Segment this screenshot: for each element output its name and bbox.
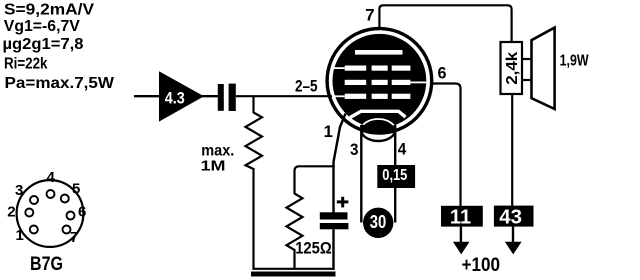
wire bottom rail (252, 268, 334, 270)
wire cathode pin 1 (334, 114, 346, 168)
grid g1 row (334, 94, 411, 99)
grid g2 row (345, 80, 433, 85)
svg-text:6: 6 (78, 204, 86, 221)
svg-text:1: 1 (324, 122, 333, 141)
svg-text:µg2g1=7,8: µg2g1=7,8 (3, 36, 84, 53)
wire C2 to bottom rail (332, 229, 334, 270)
coupling capacitor C1 (218, 84, 236, 111)
heater voltage circle 30 (363, 208, 393, 238)
svg-text:+100: +100 (462, 255, 501, 276)
svg-text:11: 11 (450, 207, 471, 229)
output transformer load 2,4k (501, 42, 523, 94)
svg-text:1,9W: 1,9W (560, 53, 590, 70)
svg-text:1M: 1M (201, 158, 226, 175)
B7G pin 6 hole (67, 212, 75, 220)
heater (361, 119, 395, 141)
wire anode pin 7 to load (379, 5, 511, 42)
cathode electrode (350, 111, 406, 117)
wire triangle to capacitor (202, 95, 219, 97)
svg-text:7: 7 (365, 6, 375, 25)
B7G base outline (17, 180, 84, 247)
heater current box 0,15 (377, 165, 415, 188)
svg-text:30: 30 (370, 212, 387, 232)
input source triangle 4.3 (159, 71, 204, 121)
wire cathode to capacitor C2 (332, 165, 334, 213)
svg-text:4.3: 4.3 (165, 89, 185, 108)
wire load to supply (511, 94, 513, 206)
svg-text:7: 7 (70, 229, 78, 246)
wire screen grid pin 6 (433, 84, 461, 207)
wire input left (134, 95, 160, 97)
label max. 1M (201, 142, 235, 174)
cathode bypass capacitor C2 (320, 212, 349, 229)
svg-text:0,15: 0,15 (382, 167, 407, 184)
tube V1 envelope (327, 29, 432, 134)
svg-text:2: 2 (7, 204, 15, 221)
svg-text:S=9,2mA/V: S=9,2mA/V (4, 1, 94, 18)
grid g3 row (333, 66, 411, 71)
anode current box 43 (494, 206, 534, 229)
tube V1 electrode disc (333, 34, 427, 128)
wire box 11 to arrow (460, 227, 462, 243)
wire heater pin 3 (360, 125, 362, 223)
grid resistor R1 max.1M (246, 96, 263, 169)
supply arrow left (453, 242, 470, 255)
svg-text:2,4k: 2,4k (504, 52, 521, 85)
wire box 43 to arrow (512, 227, 514, 243)
svg-text:3: 3 (350, 140, 359, 159)
B7G pin 3 hole (30, 196, 38, 204)
wire R1 to bottom rail (252, 168, 254, 270)
supply arrow right (505, 242, 522, 255)
screen current box 11 (441, 206, 483, 229)
svg-text:1: 1 (16, 227, 24, 244)
B7G pin 5 hole (61, 195, 69, 203)
B7G pin 1 hole (30, 226, 38, 234)
svg-text:5: 5 (72, 181, 80, 198)
plus sign polarity (337, 197, 349, 208)
svg-text:125Ω: 125Ω (295, 238, 332, 257)
transformer to speaker ticks (522, 59, 532, 80)
svg-text:4: 4 (398, 140, 407, 159)
loudspeaker LS1 (532, 28, 555, 109)
wire heater pin 4 (394, 125, 396, 223)
anode plate (355, 50, 403, 55)
wire capacitor to grid (236, 95, 332, 97)
svg-text:Ri=22k: Ri=22k (4, 56, 48, 73)
B7G pin 7 hole (63, 226, 71, 234)
svg-text:B7G: B7G (30, 254, 63, 275)
wire cathode junction horizontal (295, 166, 334, 194)
svg-text:43: 43 (499, 207, 522, 229)
B7G pin 4 hole (47, 190, 55, 198)
svg-text:4: 4 (47, 169, 56, 186)
svg-text:6: 6 (438, 63, 447, 82)
svg-text:3: 3 (15, 182, 23, 199)
chassis ground bar (251, 272, 336, 277)
svg-text:Vg1=-6,7V: Vg1=-6,7V (4, 18, 80, 35)
svg-text:Pa=max.7,5W: Pa=max.7,5W (5, 75, 115, 92)
svg-text:2–5: 2–5 (295, 76, 318, 95)
B7G pin 2 hole (25, 209, 33, 217)
cathode resistor R2 125ohm (287, 194, 303, 270)
